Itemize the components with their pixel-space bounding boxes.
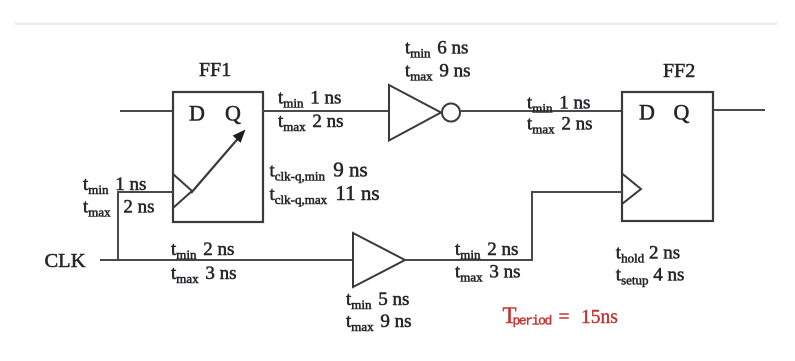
wire: inverter to FF2 D xyxy=(460,110,622,112)
svg-text:tmin 1 ns: tmin 1 ns xyxy=(278,87,341,110)
svg-text:D: D xyxy=(639,100,655,125)
buffer U2 triangle on CLK line xyxy=(353,233,405,287)
flip-flop FF1 box xyxy=(173,92,263,222)
svg-text:D: D xyxy=(189,101,205,126)
wire: FF1 Q to inverter xyxy=(263,110,389,112)
svg-text:tmax 9 ns: tmax 9 ns xyxy=(346,311,412,334)
svg-text:CLK: CLK xyxy=(45,250,86,272)
svg-text:tmin 1 ns: tmin 1 ns xyxy=(527,92,590,115)
arrow inside FF1 xyxy=(191,130,246,194)
svg-text:tmin 6 ns: tmin 6 ns xyxy=(405,38,468,61)
svg-text:tmin 1 ns: tmin 1 ns xyxy=(83,174,146,197)
svg-text:tmax 3 ns: tmax 3 ns xyxy=(455,262,521,285)
wire: input to FF1 D xyxy=(120,110,173,112)
flip-flop FF2 box xyxy=(622,92,713,221)
svg-text:tmax 2 ns: tmax 2 ns xyxy=(278,111,344,134)
svg-text:FF2: FF2 xyxy=(663,60,695,82)
svg-text:tclk-q,max 11 ns: tclk-q,max 11 ns xyxy=(270,181,380,207)
svg-text:tmin 2 ns: tmin 2 ns xyxy=(455,239,518,262)
svg-text:Tperiod=15ns: Tperiod=15ns xyxy=(503,303,618,329)
svg-text:tclk-q,min 9 ns: tclk-q,min 9 ns xyxy=(270,157,368,183)
wire: CLK branch horizontal to FF1 clock xyxy=(117,191,173,193)
inverter U1 triangle xyxy=(389,85,441,141)
wire: riser vertical to FF2 clock level xyxy=(531,191,533,261)
svg-text:thold 2 ns: thold 2 ns xyxy=(616,242,680,265)
svg-text:Q: Q xyxy=(674,100,690,125)
svg-text:FF1: FF1 xyxy=(199,59,231,81)
wire: CLK horizontal to buffer xyxy=(100,259,353,261)
svg-text:tsetup 4 ns: tsetup 4 ns xyxy=(616,265,685,288)
svg-text:tmax 3 ns: tmax 3 ns xyxy=(171,263,237,286)
svg-text:Q: Q xyxy=(225,101,241,126)
clock input triangle of FF2 xyxy=(622,174,641,205)
svg-text:tmax 9 ns: tmax 9 ns xyxy=(405,61,471,84)
wire: CLK branch vertical to FF1 clock xyxy=(117,191,119,260)
wire: riser horizontal to FF2 clock xyxy=(531,191,622,193)
svg-text:tmin 5 ns: tmin 5 ns xyxy=(346,289,409,312)
svg-text:tmax 2 ns: tmax 2 ns xyxy=(527,114,593,137)
clock input triangle of FF1 xyxy=(173,174,192,208)
inverter U1 bubble xyxy=(442,104,460,122)
wire: FF2 Q output xyxy=(713,109,765,111)
svg-text:tmin 2 ns: tmin 2 ns xyxy=(171,239,234,262)
svg-text:tmax 2 ns: tmax 2 ns xyxy=(83,197,155,220)
faint top rule xyxy=(15,23,777,25)
wire: buffer output to riser xyxy=(405,259,533,261)
